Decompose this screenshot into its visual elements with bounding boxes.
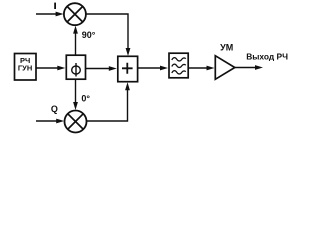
svg-text:Q: Q xyxy=(51,104,58,114)
svg-text:90°: 90° xyxy=(82,30,96,40)
svg-text:УМ: УМ xyxy=(220,43,233,53)
svg-text:0°: 0° xyxy=(81,94,90,104)
svg-text:Выход РЧ: Выход РЧ xyxy=(246,51,288,61)
svg-text:ГУН: ГУН xyxy=(18,64,32,73)
